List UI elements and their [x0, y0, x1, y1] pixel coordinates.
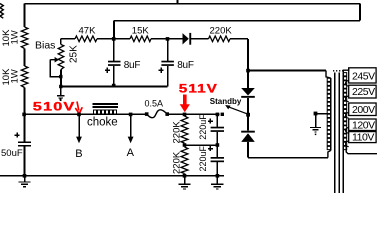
- ground (bias): [60, 87, 62, 96]
- svg-text:choke: choke: [87, 116, 118, 128]
- node mid divider: [183, 143, 187, 147]
- wire left rail to 510V node: [24, 88, 26, 143]
- wire mid divider node: [185, 144, 218, 146]
- svg-text:15K: 15K: [132, 25, 150, 36]
- capacitor 220uF (upper): [216, 116, 218, 127]
- wire drop to 47K/15K node: [113, 21, 115, 39]
- svg-text:Standby: Standby: [210, 97, 242, 106]
- switch contact dot: [221, 113, 224, 116]
- wire 15K to diode: [151, 38, 183, 40]
- transformer center tap + ground: [314, 112, 318, 116]
- wire pot bottom: [60, 70, 62, 87]
- svg-text:200V: 200V: [352, 104, 375, 116]
- node 220K bottom: [183, 174, 187, 178]
- ground (left rail): [24, 176, 26, 182]
- node 50uF/rail: [23, 174, 27, 178]
- red arrow at 510V: [77, 102, 79, 111]
- node 220uF bottom: [216, 174, 220, 178]
- pot wiper return wire: [50, 60, 61, 77]
- diode D3 (pointing up): [241, 131, 255, 133]
- wire diode chain bottom: [247, 142, 249, 158]
- svg-text:Bias: Bias: [35, 40, 55, 52]
- tap hooks: [346, 81, 349, 87]
- svg-text:220K: 220K: [172, 121, 183, 144]
- node 15K/diode/cap2: [166, 37, 170, 41]
- svg-text:220uF: 220uF: [198, 114, 208, 140]
- wire 220K to right corner: [230, 38, 248, 40]
- node B takeoff: [77, 113, 81, 117]
- svg-text:B: B: [75, 148, 82, 160]
- svg-text:0.5A: 0.5A: [145, 98, 164, 108]
- switch arm: [228, 107, 248, 115]
- resistor 10K 1W (lower): [21, 66, 28, 88]
- red arrow at 511V: [183, 95, 187, 105]
- transformer secondary winding (right): [343, 68, 348, 73]
- node switch pivot: [246, 113, 250, 117]
- node bias ground junction: [59, 85, 62, 88]
- svg-text:1W: 1W: [10, 30, 21, 44]
- svg-text:8uF: 8uF: [177, 60, 194, 71]
- wire 47K left corner down to pot: [60, 39, 62, 45]
- wire down right side to diode chain: [247, 39, 249, 88]
- svg-text:220K: 220K: [172, 151, 183, 174]
- resistor 220K (lower vertical): [181, 147, 188, 174]
- transformer core: [333, 70, 344, 72]
- wire left rail top: [24, 4, 26, 27]
- tap exit wire bottom right: [346, 147, 377, 154]
- ground (220K bottom): [184, 176, 186, 184]
- capacitor 8uF (second): [167, 39, 169, 61]
- node pot bottom: [59, 75, 62, 78]
- potentiometer 25K: [58, 45, 64, 70]
- svg-text:25K: 25K: [69, 45, 80, 63]
- svg-text:245V: 245V: [352, 70, 375, 82]
- arrow B: [78, 116, 80, 138]
- tap box 110V: [349, 132, 376, 143]
- wire diode to 220K: [191, 38, 209, 40]
- wire 47K to 15K: [97, 38, 130, 40]
- pot wiper arrow: [50, 59, 55, 61]
- capacitor 220uF (lower): [216, 145, 218, 157]
- wire between 10K resistors: [24, 49, 26, 67]
- node 510V rail left: [22, 113, 26, 117]
- wire bottom ground rail: [0, 175, 224, 177]
- wire bias/cap ground rail: [61, 86, 168, 88]
- resistor 220K (upper vertical): [181, 116, 188, 143]
- wire mid rail right section: [167, 113, 219, 115]
- svg-text:1W: 1W: [10, 69, 21, 83]
- node cap column top: [216, 113, 220, 117]
- svg-text:220uF: 220uF: [198, 145, 208, 171]
- tap box 225V: [349, 85, 376, 98]
- resistor 10K 1W (upper): [21, 27, 28, 49]
- wire inner horizontal y=20.6: [114, 20, 360, 22]
- svg-text:47K: 47K: [79, 25, 97, 36]
- svg-text:A: A: [127, 147, 135, 159]
- wire between diodes: [247, 98, 249, 131]
- capacitor 50uF: [18, 142, 31, 146]
- node choke right / A takeoff: [129, 113, 133, 117]
- diode D1 (series, pointing right): [183, 33, 189, 44]
- tap box 200V: [349, 103, 376, 116]
- svg-text:510V: 510V: [33, 100, 76, 113]
- svg-text:8uF: 8uF: [124, 60, 141, 71]
- svg-text:50uF: 50uF: [1, 148, 23, 159]
- wire top box outline: [25, 3, 360, 5]
- svg-text:220K: 220K: [210, 25, 233, 36]
- wire mid rail left section: [24, 113, 147, 115]
- node 220K branch: [183, 113, 187, 117]
- wire right vertical of top box: [359, 4, 361, 21]
- svg-text:225V: 225V: [352, 86, 375, 98]
- wire to transformer primary top: [248, 70, 326, 72]
- node diode chain top: [246, 69, 250, 73]
- resistor fragment at left edge (cut off): [0, 4, 3, 19]
- capacitor 8uF (first): [113, 39, 115, 61]
- transformer primary winding (left): [326, 71, 331, 79]
- tap box 120V: [349, 119, 376, 131]
- svg-text:511V: 511V: [179, 82, 218, 95]
- node cap1 bottom: [112, 84, 116, 88]
- arrow A: [130, 116, 132, 138]
- ground (220uF bottom): [216, 176, 218, 184]
- wire stub exiting top edge: [176, 0, 178, 4]
- svg-text:120V: 120V: [352, 119, 375, 131]
- diode D2 (pointing down): [241, 88, 255, 96]
- node 47K/15K/cap1: [112, 37, 116, 41]
- tap box 245V: [349, 68, 376, 83]
- choke: [93, 103, 118, 105]
- svg-text:110V: 110V: [352, 131, 374, 143]
